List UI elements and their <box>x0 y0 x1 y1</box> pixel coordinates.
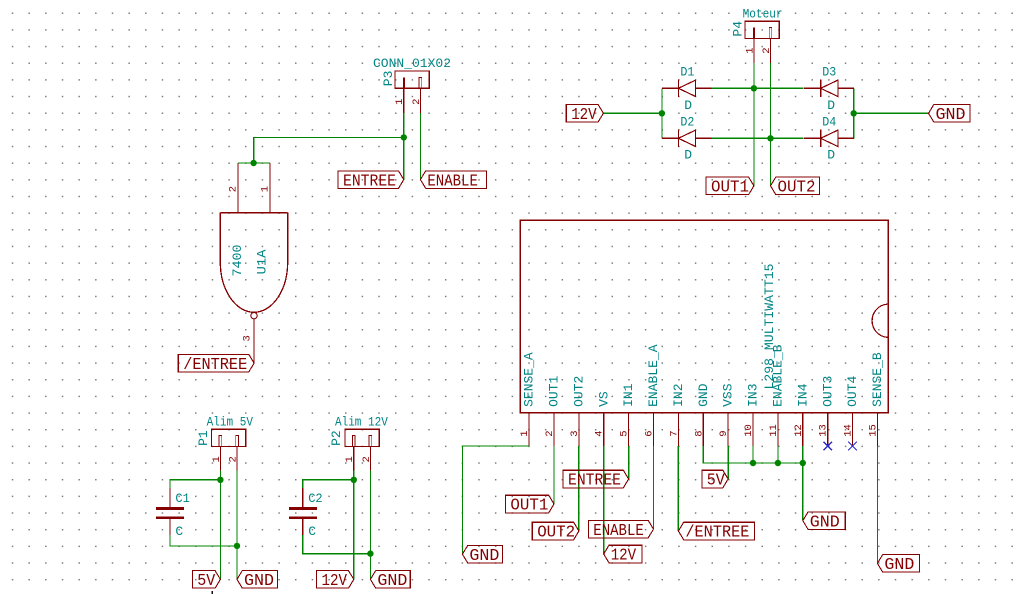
svg-text:10: 10 <box>743 424 755 437</box>
svg-text:OUT1: OUT1 <box>711 178 749 197</box>
svg-text:2: 2 <box>361 456 373 462</box>
power label 5V (pin9) <box>702 470 728 490</box>
svg-text:C: C <box>175 524 183 539</box>
svg-text:2: 2 <box>227 456 239 462</box>
svg-text:VSS: VSS <box>721 383 736 407</box>
svg-text:P1: P1 <box>196 430 211 446</box>
IC pin 14 (OUT4) <box>852 413 854 446</box>
wire 12V to left rail <box>603 112 662 114</box>
svg-text:1: 1 <box>211 456 223 462</box>
svg-text:P4: P4 <box>731 21 746 37</box>
capacitor C2 <box>289 488 317 535</box>
svg-text:C2: C2 <box>308 491 323 506</box>
junction node P3-pin1 tee <box>401 134 407 140</box>
svg-text:1: 1 <box>744 47 756 53</box>
wire pin2 OUT1 <box>553 446 555 504</box>
global label OUT2 (pin3) <box>532 522 579 542</box>
U1A pin 2 <box>237 163 239 213</box>
svg-text:3: 3 <box>569 430 581 436</box>
IC notch (right edge semicircle) <box>872 304 887 337</box>
svg-text:1: 1 <box>344 456 356 462</box>
svg-text:Alim 12V: Alim 12V <box>335 415 388 430</box>
wire pin9 VSS to 5V <box>727 446 729 479</box>
wire pin3 OUT2 <box>578 446 580 531</box>
wire D2 cathode row <box>712 137 804 139</box>
svg-text:ENABLE_A: ENABLE_A <box>646 344 661 407</box>
wire C1 top branch <box>170 480 220 488</box>
svg-text:D: D <box>827 98 835 113</box>
svg-text:/ENTREE: /ENTREE <box>183 355 247 374</box>
svg-text:12: 12 <box>793 424 805 437</box>
ground label GND (pin15) <box>877 555 919 575</box>
wire C2 bottom branch <box>303 535 371 554</box>
wire P1 pin2 to GND label <box>236 470 238 579</box>
svg-text:C: C <box>308 524 316 539</box>
svg-text:1: 1 <box>260 186 272 192</box>
svg-text:P2: P2 <box>329 430 344 446</box>
svg-text:/ENTREE: /ENTREE <box>685 523 749 542</box>
diode D1 <box>662 80 712 97</box>
svg-text:1: 1 <box>394 99 406 105</box>
global label ENABLE (pin6) <box>588 520 653 539</box>
svg-text:OUT2: OUT2 <box>572 376 587 407</box>
junction node P2 pin1 / C2 <box>351 477 357 483</box>
global label /ENTREE (gate output) <box>178 354 254 374</box>
svg-text:D: D <box>827 147 835 162</box>
svg-text:D: D <box>684 147 692 162</box>
svg-text:GND: GND <box>884 555 914 574</box>
svg-text:2: 2 <box>228 186 240 192</box>
ground label GND (P2) <box>370 571 410 591</box>
global label OUT2 (top) <box>771 177 820 196</box>
IC pin 13 (OUT3) <box>827 413 829 446</box>
svg-text:OUT2: OUT2 <box>537 523 575 542</box>
U1A pin 3 <box>253 319 255 363</box>
global label ENTREE (pin5) <box>563 470 629 490</box>
wire pin5 IN1 to ENTREE <box>628 446 630 479</box>
svg-text:C1: C1 <box>175 491 190 506</box>
IC pin 8 (GND) <box>702 413 704 446</box>
wire P2 pin1 to 12V label <box>353 470 355 579</box>
svg-text:ENABLE: ENABLE <box>593 521 644 540</box>
svg-text:3: 3 <box>241 335 253 341</box>
junction node P4 pin2 / D2-D4 row <box>767 135 773 141</box>
svg-text:OUT4: OUT4 <box>845 375 860 406</box>
junction node P1 pin2 / C1 <box>234 543 240 549</box>
wire pin4 VS to 12V <box>603 446 605 554</box>
svg-text:OUT1: OUT1 <box>510 496 548 515</box>
svg-text:GND: GND <box>696 383 711 407</box>
svg-text:SENSE_B: SENSE_B <box>870 352 885 407</box>
wire pin7 IN2 to /ENTREE <box>677 446 679 531</box>
svg-text:5: 5 <box>619 430 631 436</box>
global label ENABLE (top) <box>420 171 486 191</box>
ground label GND (pin1) <box>462 546 502 565</box>
svg-text:Moteur: Moteur <box>743 7 783 22</box>
wire pin8 GND bus <box>703 446 803 521</box>
svg-text:OUT1: OUT1 <box>547 375 562 406</box>
svg-text:SENSE_A: SENSE_A <box>522 352 537 407</box>
power label 12V (pin4) <box>604 545 642 565</box>
svg-text:VS: VS <box>596 391 611 407</box>
svg-text:ENABLE: ENABLE <box>427 171 478 190</box>
power label 5V (P1) <box>192 571 220 591</box>
svg-text:2: 2 <box>544 430 556 436</box>
svg-text:D3: D3 <box>822 64 836 79</box>
IC pin 5 (IN1) <box>628 413 630 446</box>
wire pin1 SENSE_A to GND <box>462 446 529 554</box>
wire junction to gate inputs <box>254 137 404 163</box>
op-amp U1A 7400 NAND gate body <box>220 213 287 313</box>
svg-text:CONN_01X02: CONN_01X02 <box>373 56 451 71</box>
IC pin 1 (SENSE_A) <box>528 413 530 446</box>
wire pin6 ENABLE_A to ENABLE <box>653 446 655 529</box>
wire D1 cathode row <box>712 87 804 89</box>
svg-text:13: 13 <box>818 424 830 437</box>
svg-text:9: 9 <box>718 430 730 436</box>
svg-text:7: 7 <box>668 430 680 436</box>
wire pin11 ENABLE_B drop <box>777 446 779 463</box>
IC pin 3 (OUT2) <box>578 413 580 446</box>
power label 12V (P2) <box>317 571 354 591</box>
IC pin 7 (IN2) <box>677 413 679 446</box>
wire P1 pin1 to 5V label <box>219 470 221 579</box>
junction node P4 pin1 / D1-D3 row <box>751 85 757 91</box>
wire pin15 SENSE_B to GND <box>876 446 878 564</box>
connector P3 <box>395 71 429 113</box>
global label /ENTREE (pin7) <box>678 522 754 542</box>
svg-text:ENTREE: ENTREE <box>343 171 396 190</box>
wire gate input bridge <box>238 162 270 164</box>
connector P1 <box>212 429 246 470</box>
junction node pin11 bus <box>775 460 781 466</box>
IC pin 15 (SENSE_B) <box>876 413 878 446</box>
svg-text:IN2: IN2 <box>671 383 686 406</box>
junction node right rail GND <box>851 110 857 116</box>
wire right rail to GND label <box>854 112 929 114</box>
svg-text:D2: D2 <box>680 114 694 129</box>
svg-text:GND: GND <box>377 571 407 590</box>
junction node pin10 bus <box>750 460 756 466</box>
svg-text:5V: 5V <box>707 471 725 490</box>
svg-text:D4: D4 <box>822 114 836 129</box>
connector P4 <box>745 21 779 63</box>
junction node pin12 bus <box>800 460 806 466</box>
svg-text:1: 1 <box>519 430 531 436</box>
wire P2 pin2 to GND label <box>369 470 371 579</box>
U1A output bubble <box>251 312 257 318</box>
global label ENTREE (top) <box>338 171 404 191</box>
svg-text:IN1: IN1 <box>621 383 636 407</box>
IC pin 10 (IN3) <box>752 413 754 446</box>
diode D2 <box>662 130 712 147</box>
svg-text:4: 4 <box>594 430 606 436</box>
svg-text:IN4: IN4 <box>795 383 810 407</box>
svg-text:OUT3: OUT3 <box>820 376 835 407</box>
wire C2 top branch <box>303 480 354 488</box>
svg-text:14: 14 <box>843 424 855 437</box>
power label 12V (bridge) <box>566 105 603 125</box>
wire P3 pin2 to ENABLE label <box>419 113 421 180</box>
svg-text:7400: 7400 <box>230 245 245 277</box>
svg-text:5V: 5V <box>197 571 215 590</box>
svg-text:ENABLE_B: ENABLE_B <box>771 344 786 407</box>
ground label GND (pin12) <box>803 512 845 531</box>
no-connect X pin 13 <box>823 442 832 451</box>
wire C1 bottom branch <box>170 535 237 546</box>
ground label GND (bridge) <box>929 105 970 125</box>
IC pin 12 (IN4) <box>802 413 804 446</box>
svg-text:8: 8 <box>693 430 705 436</box>
svg-text:D1: D1 <box>680 64 694 79</box>
svg-text:D: D <box>684 98 692 113</box>
global label OUT1 (pin2) <box>505 495 554 515</box>
svg-text:OUT2: OUT2 <box>778 178 816 197</box>
svg-text:U1A: U1A <box>255 249 270 274</box>
svg-text:12V: 12V <box>322 571 348 590</box>
IC U2 L298 MULTIWATT15 body <box>520 220 888 413</box>
svg-text:Alim 5V: Alim 5V <box>207 415 254 430</box>
wire pin12 IN4 drop <box>802 446 804 463</box>
svg-text:GND: GND <box>244 571 274 590</box>
svg-text:GND: GND <box>936 105 966 124</box>
svg-text:2: 2 <box>761 47 773 53</box>
diode D4 <box>804 130 854 147</box>
junction node left rail 12V <box>659 110 665 116</box>
junction node P2 pin2 / C2 <box>367 550 373 556</box>
global label OUT1 (top) <box>706 177 754 196</box>
IC pin 11 (ENABLE_B) <box>777 413 779 446</box>
svg-text:11: 11 <box>768 424 780 437</box>
no-connect X pin 14 <box>848 442 857 451</box>
IC pin 6 (ENABLE_A) <box>653 413 655 446</box>
svg-text:12V: 12V <box>571 105 597 124</box>
svg-text:GND: GND <box>810 512 840 531</box>
junction node P1 pin1 / C1 <box>217 477 223 483</box>
IC pin 9 (VSS) <box>727 413 729 446</box>
sheet mark below 5V <box>212 591 213 594</box>
svg-text:IN3: IN3 <box>746 383 761 406</box>
wire right rail <box>853 88 855 138</box>
svg-text:2: 2 <box>411 99 423 105</box>
wire left rail <box>661 88 663 138</box>
ground label GND (P1) <box>237 571 278 591</box>
capacitor C1 <box>156 488 184 535</box>
wire P3 pin1 to junction <box>403 113 405 138</box>
wire P4 pin1 to OUT1 <box>753 63 755 186</box>
wire pin10 IN3 drop <box>752 446 754 463</box>
svg-text:15: 15 <box>867 424 879 437</box>
svg-text:6: 6 <box>644 430 656 436</box>
svg-text:GND: GND <box>469 546 499 565</box>
svg-text:12V: 12V <box>611 546 637 565</box>
wire P4 pin2 to OUT2 <box>770 63 772 186</box>
IC pin 2 (OUT1) <box>553 413 555 446</box>
connector P2 <box>345 429 379 470</box>
wire P3 pin1 to ENTREE label <box>403 137 405 179</box>
svg-text:ENTREE: ENTREE <box>568 471 621 490</box>
svg-text:P3: P3 <box>381 71 396 87</box>
junction node gate input tee <box>250 160 256 166</box>
diode D3 <box>804 80 854 97</box>
IC pin 4 (VS) <box>603 413 605 446</box>
U1A pin 1 <box>269 163 271 213</box>
